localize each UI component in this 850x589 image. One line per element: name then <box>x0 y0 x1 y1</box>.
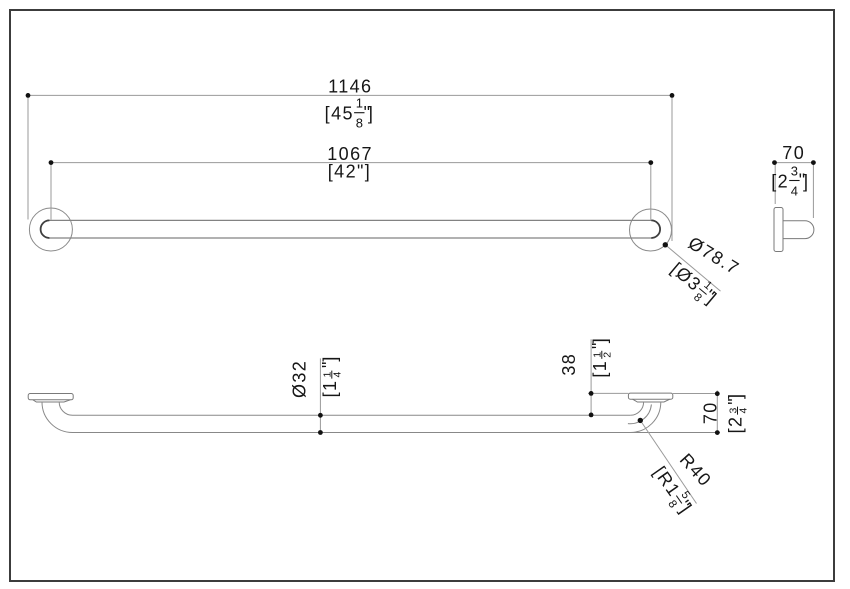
svg-text:[42"]: [42"] <box>328 161 371 181</box>
svg-text:[45: [45 <box>325 104 354 124</box>
svg-text:[1: [1 <box>320 380 340 398</box>
svg-text:1: 1 <box>356 96 363 111</box>
svg-text:38: 38 <box>559 353 579 376</box>
svg-text:4: 4 <box>737 408 749 414</box>
svg-text:]: ] <box>803 171 809 191</box>
svg-text:2: 2 <box>602 352 614 358</box>
svg-text:Ø32: Ø32 <box>289 360 309 398</box>
svg-text:70: 70 <box>782 143 805 163</box>
svg-text:3: 3 <box>791 164 798 179</box>
svg-text:]: ] <box>320 355 340 361</box>
svg-text:[1: [1 <box>590 360 610 378</box>
svg-text:]: ] <box>726 393 746 399</box>
svg-text:[2: [2 <box>771 171 789 191</box>
svg-text:8: 8 <box>356 116 363 131</box>
svg-text:]: ] <box>368 104 374 124</box>
svg-text:]: ] <box>590 337 610 343</box>
svg-text:4: 4 <box>791 183 798 198</box>
svg-text:4: 4 <box>332 372 344 378</box>
svg-text:[2: [2 <box>726 416 746 434</box>
svg-text:1146: 1146 <box>328 77 372 97</box>
svg-text:70: 70 <box>700 401 720 424</box>
